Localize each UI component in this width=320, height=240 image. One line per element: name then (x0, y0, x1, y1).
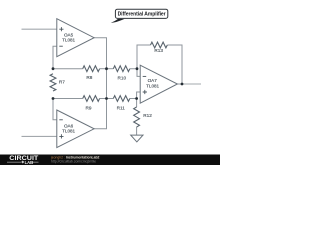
wire R12 top lead from node (136, 99, 138, 108)
svg-text:OA5: OA5 (64, 32, 74, 37)
svg-text:R13: R13 (154, 48, 163, 53)
wire row2 segment R9 to center column (100, 98, 107, 100)
op-amp OA6 (57, 110, 94, 148)
callout Differential Amplifier (111, 19, 125, 23)
resistor R9 (83, 96, 100, 102)
resistor R11 (113, 96, 130, 102)
resistor R12 (134, 107, 140, 127)
junction dot OA7 output / R13 right (181, 83, 184, 86)
svg-text:R7: R7 (59, 79, 65, 84)
svg-text:TL081: TL081 (146, 84, 159, 89)
op-amp OA5 (57, 19, 94, 57)
resistor R10 (113, 66, 130, 72)
wire OA5 output down the center column to OA6 output (94, 38, 106, 129)
wire output stub (182, 83, 201, 85)
wire row1 segment node A to R8 (53, 68, 83, 70)
svg-text:LAB: LAB (25, 160, 34, 165)
junction dot OA7 - input / R13 left (136, 67, 139, 70)
wire R12 bottom lead to ground (136, 127, 138, 135)
wire R11 to OA7 + input jog (130, 92, 140, 99)
watermark bar (0, 155, 220, 166)
wire row2 segment node B to R9 (53, 98, 83, 100)
wire OA6 + input stub (22, 135, 57, 137)
wire row1 segment R8 to center column (100, 68, 107, 70)
wire R10 to OA7 - input jog (130, 69, 140, 77)
svg-text:R8: R8 (86, 75, 92, 80)
wire OA5 - input jog down to node A (53, 46, 57, 68)
svg-text:OA7: OA7 (148, 78, 158, 83)
svg-text:R12: R12 (143, 113, 152, 118)
node B junction dot (52, 97, 55, 100)
node A junction dot (52, 67, 55, 70)
svg-text:R11: R11 (117, 105, 126, 110)
svg-text:OA6: OA6 (64, 123, 74, 128)
wire OA6 - input jog up to node B (53, 99, 57, 120)
junction dot OA7 + input / R12 top (135, 97, 138, 100)
op-amp OA7 (140, 65, 177, 103)
svg-text:http://circuitlab.com/cmq3m9e: http://circuitlab.com/cmq3m9e (51, 160, 96, 164)
resistor R13 (151, 42, 168, 48)
svg-text:R10: R10 (117, 75, 126, 80)
wire OA7 output to node OUT (177, 83, 182, 85)
svg-text:TL081: TL081 (62, 129, 75, 134)
wire R13 feedback loop (137, 45, 182, 84)
svg-text:R9: R9 (86, 105, 92, 110)
junction dot center column row1 (105, 67, 108, 70)
wire row2 segment center column to R11 (107, 98, 114, 100)
resistor R7 (50, 74, 56, 91)
resistor R8 (83, 66, 100, 72)
junction dot center column row2 (105, 97, 108, 100)
wire OA5 + input stub (22, 28, 57, 30)
ground (131, 135, 143, 142)
svg-text:Differential Amplifier: Differential Amplifier (118, 12, 166, 18)
svg-text:TL081: TL081 (62, 38, 75, 43)
wire row1 segment center column to R10 (107, 68, 114, 70)
